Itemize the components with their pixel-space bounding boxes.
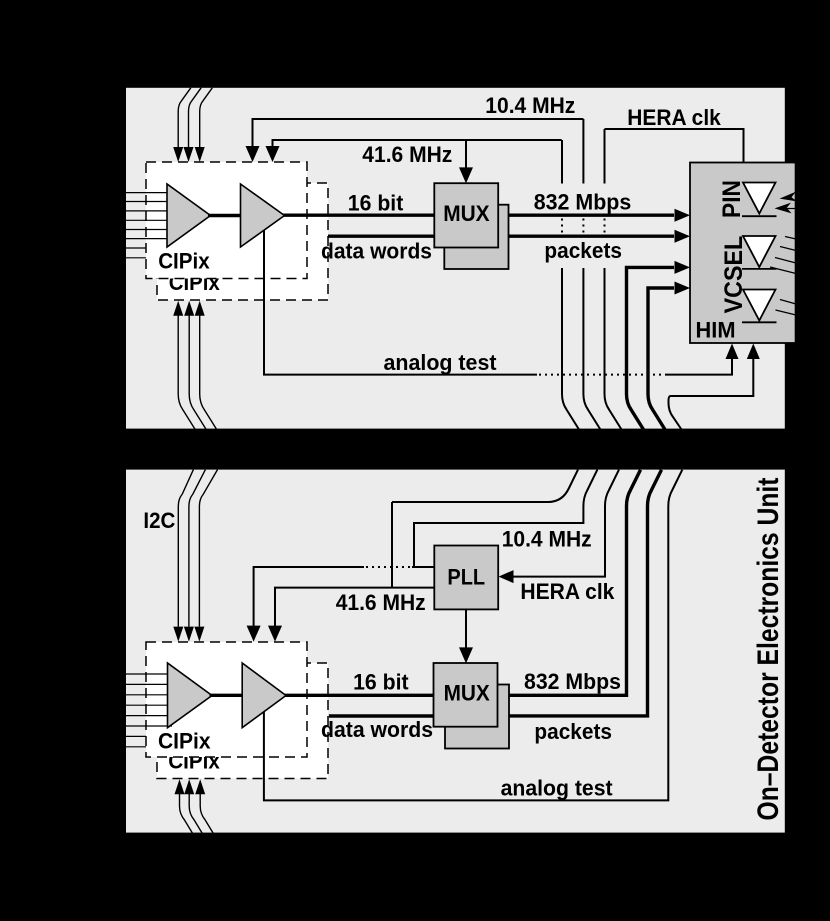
svg-text:10.4 MHz: 10.4 MHz — [485, 93, 575, 118]
svg-text:I2C: I2C — [143, 508, 175, 533]
svg-text:41.6 MHz: 41.6 MHz — [336, 590, 426, 615]
fibre rays from VCSEL 1 — [770, 237, 796, 274]
CIPix chip 2 (bottom unit, behind) — [157, 663, 328, 779]
amplifier triangle 1 (top CIPix) — [167, 184, 211, 247]
wire: 10.4 MHz feed-through down to bottom unit — [583, 119, 600, 430]
wire: amp1 to amp2 (top) — [208, 214, 243, 217]
svg-text:16 bit: 16 bit — [348, 190, 404, 215]
bottom electronics panel — [126, 470, 785, 833]
svg-text:packets: packets — [534, 719, 612, 744]
svg-text:packets: packets — [544, 238, 622, 263]
analog input lines into top CIPix amplifier — [126, 193, 172, 239]
svg-text:analog test: analog test — [384, 350, 498, 375]
analog input lines into bottom CIPix amplifier — [126, 674, 172, 726]
wire: 16 bit bus from amplifier to bottom MUX — [285, 694, 441, 697]
svg-text:832 Mbps: 832 Mbps — [524, 669, 621, 694]
wire: packets from top MUX into HIM — [497, 230, 690, 243]
wire: control line 3 into top CIPix (from above) — [195, 88, 213, 162]
wire: I2C line 2 into bottom CIPix — [184, 470, 206, 642]
CIPix chip 2 (top unit, behind) — [157, 183, 328, 300]
mux U3 (bottom MUX) — [434, 663, 498, 727]
svg-text:MUX: MUX — [444, 681, 491, 706]
wire: data words bus from CIPix 2 to bottom MUX — [329, 714, 440, 717]
svg-text:data words: data words — [321, 238, 432, 263]
svg-text:HERA clk: HERA clk — [520, 579, 615, 604]
svg-text:analog test: analog test — [501, 776, 614, 801]
wire: 41.6 MHz from PLL to top unit and bottom CIPix — [268, 470, 578, 642]
wire: HERA clk line (top panel) into HIM — [605, 129, 744, 164]
amplifier triangle 1 (bottom CIPix) — [168, 663, 213, 728]
svg-text:PLL: PLL — [447, 565, 485, 590]
svg-text:832 Mbps: 832 Mbps — [534, 190, 632, 215]
svg-text:10.4 MHz: 10.4 MHz — [502, 527, 592, 552]
incoming light arrows into PIN — [775, 192, 799, 214]
wire: 41.6 MHz feed-through down to bottom unit — [562, 140, 579, 430]
wire: 832 Mbps from bottom MUX up to HIM — [497, 470, 641, 696]
wire: 832 Mbps riser from bottom unit into HIM — [627, 261, 691, 430]
wire: I2C line 1 from below into bottom CIPix 2 — [175, 779, 193, 833]
wire: control line 2 from below into top CIPix 2 — [184, 301, 206, 430]
extra input lines into bottom CIPix chip — [126, 736, 146, 746]
wire: control line 3 from below into top CIPix 2 — [195, 301, 217, 430]
svg-text:HERA clk: HERA clk — [627, 105, 721, 130]
svg-text:On–Detector Electronics Unit: On–Detector Electronics Unit — [752, 477, 785, 820]
wire: 41.6 MHz branch down into top MUX — [459, 140, 473, 183]
wire: 41.6 MHz line (top panel) to CIPix — [266, 140, 562, 162]
HIM opto module — [690, 163, 796, 344]
wire: analog test line (bottom unit) up to HIM — [264, 470, 682, 801]
wire: I2C line 1 into bottom CIPix — [173, 470, 193, 642]
wire: HERA clk into PLL — [499, 470, 620, 583]
svg-text:PIN: PIN — [718, 180, 746, 218]
top electronics panel — [126, 88, 785, 429]
shadow of top MUX — [444, 205, 508, 269]
wire: control line 1 into top CIPix (from above) — [173, 88, 191, 162]
CIPix chip 1 (bottom unit) — [146, 642, 307, 757]
extra input lines into top CIPix chip — [126, 248, 146, 258]
CIPix chip 1 (top unit) — [146, 162, 307, 279]
svg-text:HIM: HIM — [696, 317, 736, 342]
wire: 832 Mbps from top MUX into HIM — [497, 209, 690, 222]
wire: 10.4 MHz from PLL to top unit and bottom CIPix — [247, 470, 598, 642]
wire: I2C line 2 from below into bottom CIPix 2 — [184, 779, 202, 833]
svg-text:CIPix: CIPix — [158, 249, 210, 274]
VCSEL diode 1 — [742, 236, 777, 269]
svg-text:data words: data words — [321, 717, 433, 742]
VCSEL diode 2 — [742, 290, 777, 323]
fibre rays from VCSEL 2 — [776, 300, 797, 316]
mux U1 (top MUX) — [434, 183, 498, 247]
wire: amp1 to amp2 (bottom) — [210, 694, 245, 697]
wire: packets riser from bottom unit into HIM — [648, 282, 690, 430]
svg-text:MUX: MUX — [443, 201, 490, 226]
pll U2 (PLL) — [434, 546, 498, 610]
wire: data words bus from CIPix 2 to top MUX — [328, 234, 440, 237]
wire: packets from bottom MUX up to HIM — [497, 470, 662, 716]
wire: HERA clk feed-through down to bottom unit — [605, 129, 622, 430]
wire: control line 2 into top CIPix (from above) — [184, 88, 202, 162]
wire: 16 bit bus from amplifier to top MUX — [283, 213, 440, 216]
wire: 10.4 MHz line (top panel) to CIPix — [246, 119, 584, 162]
wire: PLL output into bottom MUX — [459, 609, 473, 663]
svg-text:VCSEL: VCSEL — [720, 236, 748, 314]
shadow of bottom MUX — [445, 685, 509, 749]
amplifier triangle 2 (bottom CIPix) — [242, 663, 286, 728]
svg-text:41.6 MHz: 41.6 MHz — [362, 142, 452, 167]
wire: analog test line (top unit) into HIM — [264, 230, 739, 375]
PIN photodiode — [742, 183, 777, 217]
wire: I2C line 3 into bottom CIPix — [194, 470, 217, 642]
svg-text:CIPix: CIPix — [158, 728, 211, 753]
amplifier triangle 2 (top CIPix) — [241, 184, 285, 247]
wire: control line 1 from below into top CIPix 2 — [173, 301, 195, 430]
wire: I2C line 3 from below into bottom CIPix 2 — [195, 779, 213, 833]
wire: bottom-unit analog test feed into HIM — [669, 344, 760, 430]
svg-text:16 bit: 16 bit — [353, 670, 409, 695]
